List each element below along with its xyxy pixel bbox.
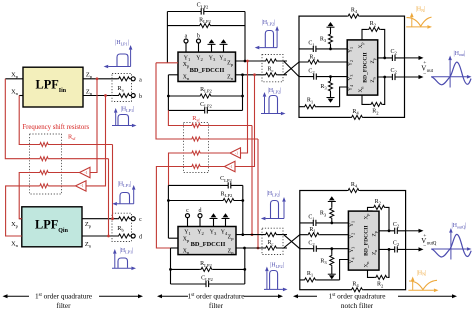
resistor R_1b N2 (304, 277, 317, 283)
label b (139, 94, 142, 100)
svg-text:R3: R3 (320, 211, 327, 218)
wire R_1b line to Y4 N1 (299, 87, 347, 107)
svg-text:RLP2: RLP2 (200, 261, 212, 268)
svg-text:Rc: Rc (267, 240, 273, 247)
LPF block U_Qin (22, 207, 82, 247)
svg-text:R3: R3 (320, 258, 327, 265)
wire X_n input stub LPF_Iin (19, 95, 23, 97)
op-amp block U1 BD_FDCCII (178, 52, 236, 81)
svg-text:Frequency shift resistors: Frequency shift resistors (22, 124, 89, 131)
junction Zp(U2) tap (251, 233, 254, 236)
label R_a (117, 85, 123, 93)
pin label X_n of LPF_Iin (11, 89, 19, 97)
resistor R_4 top N1 (347, 13, 360, 19)
svg-text:C2: C2 (391, 68, 398, 75)
wire right rail top feedback U1 (244, 12, 246, 62)
svg-text:Y2: Y2 (196, 55, 203, 62)
svg-text:R1: R1 (307, 98, 314, 105)
label C_LP2 (top U1) (197, 3, 209, 10)
svg-text:Zp: Zp (228, 235, 235, 242)
wire C_1 line N2 (300, 222, 349, 224)
svg-text:R4: R4 (352, 281, 359, 288)
pin label Z_n U2 (228, 249, 235, 256)
wire X_p input stub LPF_Qin (19, 218, 22, 220)
svg-text:C1: C1 (308, 41, 315, 48)
LPF block U_Iin (23, 67, 83, 107)
svg-text:-1: -1 (230, 165, 233, 169)
label R_3 lower N2 (320, 258, 327, 265)
wire R_2 bottom loop N2 (368, 249, 390, 277)
resistor R_sf6 (191, 136, 201, 142)
resistor R_2 bottom N1 (370, 101, 383, 107)
label b above U1 (197, 33, 200, 39)
svg-text:notch filter: notch filter (341, 301, 374, 310)
svg-text:-1: -1 (81, 184, 84, 188)
label R_1a N1 (309, 54, 316, 61)
svg-text:Y1: Y1 (349, 221, 355, 227)
inverting amp A2 (left) (76, 181, 87, 191)
label R_3 upper N1 (320, 37, 327, 44)
op-amp block U2 BD_FDCCII (178, 227, 236, 255)
resistor R_4 top N2 (347, 187, 360, 193)
label out N1 (421, 65, 433, 75)
svg-text:Y1: Y1 (348, 47, 354, 53)
label R_1b N2 (307, 271, 314, 278)
terminal a above U1 (184, 39, 188, 52)
wire X_p stub U1 (red) (156, 62, 178, 64)
pin label Z_p U1 (227, 60, 234, 67)
svg-text:R2: R2 (375, 199, 382, 206)
wire Z_n U1 to R_c (236, 74, 288, 76)
svg-text:b: b (139, 94, 142, 100)
junction top rail on Z_p U1 (244, 60, 247, 63)
terminal a (circle) (131, 77, 135, 81)
svg-text:R3: R3 (320, 84, 327, 91)
svg-text:Y3: Y3 (209, 55, 216, 62)
label R_LP2 (top U2) (221, 191, 233, 198)
capacitor C_2in N2 (314, 245, 317, 252)
label R_3 lower N1 (320, 84, 327, 91)
svg-text:BD_FDCCII: BD_FDCCII (364, 225, 370, 255)
arrow output - N2 (406, 247, 424, 251)
junction R_2 top on Z_p N1 (383, 57, 386, 60)
svg-text:C2: C2 (308, 241, 315, 248)
plot |H_LP2| (bottom of U2) (264, 263, 288, 292)
wire R_1b line to Y4 N2 (300, 260, 349, 280)
wire C_1 line N1 (299, 48, 347, 50)
plot |H_LP1| (below R_b) (112, 248, 136, 270)
wire Z_p output N1 (378, 57, 405, 59)
svg-text:C2: C2 (393, 222, 400, 229)
pin label Y2 U2 (197, 230, 204, 237)
svg-text:RLP2: RLP2 (221, 191, 233, 198)
resistor R_c1 (265, 58, 278, 64)
svg-text:C2: C2 (308, 68, 315, 75)
dimension arrow 1st order quadrature filter (I) (3, 294, 144, 298)
label R_4 bottom N1 (352, 109, 359, 116)
ground upper N1 (up) (327, 22, 335, 27)
wire left rail top feedback U1 (166, 12, 168, 63)
label R_b (117, 225, 124, 233)
pin label Z_p U2 (228, 235, 235, 242)
wire row3 amp to Xp(Q) (red) (19, 173, 79, 219)
wire right rail top feedback U2 (242, 185, 244, 234)
capacitor C_2 out lower N1 (392, 73, 395, 80)
label R_c (top) (267, 66, 273, 73)
resistor R_sf5 (191, 123, 201, 129)
ground lower N2 (down) (328, 274, 336, 279)
svg-text:Xn: Xn (183, 74, 190, 81)
plot |H_LP1| (below R_a) (112, 107, 137, 128)
svg-text:R4: R4 (351, 8, 358, 15)
capacitor C_LP2 (bottom U2) (206, 280, 209, 287)
wire row4 amp to Xn(Q) (red) (6, 186, 76, 236)
pin label Y3 U1 (209, 55, 216, 62)
label 1st order quadrature filter (Q) line1 (187, 291, 244, 300)
wire R_1 line N1 (299, 61, 347, 63)
wire R_1 line N2 (300, 234, 349, 236)
resistor box R_c bottom (dashed) (262, 228, 283, 254)
label C_2 out lower N1 (391, 68, 398, 75)
plot |H_LP1| (above R_b) (112, 182, 135, 206)
junction bottom rail on Z_n U2 (243, 247, 246, 250)
wire Z_n output N2 (379, 248, 406, 250)
terminal b above U1 (197, 39, 201, 52)
svg-text:filter: filter (209, 301, 224, 310)
label R_1b N1 (307, 98, 314, 105)
pin label X_p U4 (364, 214, 370, 220)
plot |H_out| response (top, blue) (431, 51, 471, 88)
label R_2 bottom N2 (377, 282, 384, 289)
resistor R_2 top N1 (368, 26, 381, 32)
label c (139, 217, 142, 223)
plot |H_LP2| (top of U1) (255, 20, 279, 49)
plot |H_outQ| response (bottom, blue) (431, 223, 471, 259)
svg-text:c: c (186, 208, 189, 214)
svg-text:Rc: Rc (267, 66, 273, 73)
label C_1 N2 (308, 215, 315, 222)
resistor R_1a N2 (307, 232, 320, 238)
ground lower N1 (down) (327, 98, 335, 103)
junction Zn(I) tap (104, 94, 107, 97)
resistor R_3 upper N2 (329, 202, 335, 225)
label C_2in N2 (308, 241, 315, 248)
svg-text:Zp: Zp (370, 58, 376, 63)
resistor R_LP2 (top U1) (199, 23, 212, 29)
resistor R_sf8 (191, 163, 201, 169)
wire R_2 top loop N2 (368, 207, 390, 230)
label - N1 (423, 71, 426, 77)
svg-text:−: − (423, 244, 426, 250)
label R_4 top N2 (351, 182, 358, 189)
pin label X_n U1 (183, 74, 190, 81)
wire crossing X bottom (284, 235, 300, 249)
pin label Y1 U4 (349, 221, 355, 227)
op-amp block U4 BD_FDCCII (rotated) (348, 211, 379, 270)
resistor R_1b N1 (304, 104, 317, 110)
svg-text:Y2: Y2 (348, 60, 354, 66)
label outQ N2 (421, 237, 437, 247)
ground upper N2 (up) (328, 196, 336, 201)
label R_2 bottom N1 (372, 109, 379, 116)
resistor R_a2 on line b (118, 93, 131, 99)
label 1st order quadrature notch filter line1 (328, 291, 385, 300)
svg-text:C1: C1 (308, 215, 315, 222)
pin label X_n U2 (183, 248, 190, 255)
svg-text:R1: R1 (309, 227, 316, 234)
wire R_LP2 bottom feedback U2 (169, 268, 246, 271)
svg-text:Y1: Y1 (184, 230, 191, 237)
resistor box R_c top (dashed) (262, 55, 283, 82)
wire Z_p of LPF_Iin to terminal a (83, 78, 131, 80)
svg-text:Zn: Zn (228, 249, 235, 256)
wire R_LP2 bottom feedback U1 (167, 95, 244, 98)
plot |H_N| notch (top, orange) (406, 7, 432, 29)
label a (139, 77, 142, 83)
label C_1 N1 (308, 41, 315, 48)
svg-text:|HLP1|: |HLP1| (120, 248, 134, 254)
svg-text:BD_FDCCII: BD_FDCCII (191, 241, 226, 248)
svg-text:d: d (199, 208, 202, 214)
pin label X_p of LPF_Iin (11, 72, 19, 80)
label R_4 bottom N2 (352, 281, 359, 288)
arrow output - N1 (405, 75, 424, 79)
pin label Y4 U3 (348, 85, 354, 91)
wire R_LP2 top feedback U2 (168, 200, 242, 202)
svg-text:b: b (197, 33, 200, 39)
junction bottom rail on Z_n U1 (241, 73, 244, 76)
label a above U1 (185, 33, 188, 39)
pin label X_p of LPF_Qin (11, 221, 19, 229)
svg-text:R2: R2 (377, 282, 384, 289)
pin label Z_p of LPF_Qin (85, 221, 92, 229)
resistor R_3 lower N2 (329, 247, 335, 274)
wire Z_n output N1 (378, 76, 405, 78)
svg-text:Y4: Y4 (348, 85, 354, 91)
junction Zn(U1) tap (253, 73, 256, 76)
svg-text:Y4: Y4 (219, 55, 226, 62)
wire Z_n of LPF_Iin to terminal b (83, 95, 131, 97)
wire R_2 bottom loop N1 (362, 77, 385, 104)
capacitor C_LP2 (top U1) (201, 8, 204, 15)
wire Zn(I) to amp A2 (red) (86, 96, 106, 186)
capacitor C_1 N1 (313, 45, 316, 52)
pin label Y4 U1 (219, 55, 226, 62)
label C_LP2 (bottom U1) (200, 102, 212, 109)
resistor R_2 top N2 (373, 204, 386, 210)
wire outer loop R_4 N1 (299, 16, 405, 117)
arrow output + N1 (405, 56, 424, 60)
inverting amp A4 (middle) (225, 161, 236, 171)
svg-text:BD_FDCCII: BD_FDCCII (362, 52, 368, 82)
label C_LP2 (bottom U2) (201, 276, 213, 283)
svg-text:C2: C2 (393, 240, 400, 247)
label R_c (bottom) (267, 240, 273, 247)
svg-text:R4: R4 (351, 182, 358, 189)
wire crossing X top (284, 61, 299, 77)
svg-text:Xn: Xn (358, 87, 364, 93)
svg-text:CLP2: CLP2 (201, 276, 213, 283)
wire C_2 line N1 (299, 76, 347, 78)
wire X_n stub U1 (168, 74, 178, 76)
svg-text:Xn: Xn (364, 262, 370, 268)
dimension arrow 1st order quadrature notch filter (293, 294, 457, 298)
label 1st order quadrature filter (I) line1 (35, 291, 92, 300)
capacitor C_2 out lower N2 (395, 246, 398, 253)
svg-text:RLP2: RLP2 (200, 87, 212, 94)
svg-text:Y3: Y3 (348, 75, 354, 81)
svg-text:Y3: Y3 (210, 230, 217, 237)
plot |H_N| notch (bottom, orange) (408, 270, 438, 292)
wire row2 Zn(U2) to Xp(U1) (red) (156, 63, 258, 248)
label Frequency shift resistors (22, 124, 89, 131)
svg-text:c: c (139, 217, 142, 223)
resistor R_c4 (265, 245, 278, 251)
ground at Y4 U1 (220, 39, 228, 52)
junction right rail on Z_p U2 (241, 233, 244, 236)
pin label Z_p U4 (372, 231, 378, 236)
resistor R_a1 on line a (118, 76, 131, 82)
terminal d (circle) (131, 234, 135, 238)
svg-text:Xp: Xp (183, 237, 190, 244)
svg-text:Zn: Zn (372, 250, 378, 255)
svg-text:Zp: Zp (372, 231, 378, 236)
pin label Y4 U4 (349, 258, 355, 264)
dimension arrow 1st order quadrature filter (Q) (157, 294, 283, 298)
label c above U2 (186, 208, 189, 214)
wire left rail bottom feedback U1 (167, 75, 169, 111)
wire row3 amp to Xp(U2) (red) (169, 153, 231, 185)
svg-text:CLP2: CLP2 (220, 176, 232, 183)
svg-text:|HLP1|: |HLP1| (118, 182, 132, 188)
svg-text:BD_FDCCII: BD_FDCCII (190, 67, 225, 74)
svg-text:CLP2: CLP2 (197, 3, 209, 10)
svg-text:|HN|: |HN| (417, 270, 427, 276)
wire row4 amp to Xn(U2) (red) (156, 167, 224, 249)
resistor R_sf7 (191, 150, 201, 156)
resistor box R_b (dashed) (112, 213, 132, 241)
wire R_LP2 top feedback U1 (167, 25, 245, 27)
label R_LP2 (bottom U2) (200, 261, 212, 268)
inverting amp A3 (middle) (230, 148, 241, 158)
resistor R_3 lower N1 (327, 75, 333, 97)
wire left rail top feedback U2 (167, 185, 169, 238)
terminal c above U2 (186, 214, 190, 227)
pin label Z_n U1 (227, 75, 234, 82)
label R_2 top N1 (370, 21, 377, 28)
svg-text:|HLP2|: |HLP2| (270, 263, 284, 269)
resistor R_2 bottom N2 (375, 274, 388, 280)
junction Zp(Q) tap (111, 217, 114, 220)
wire row1 Zp(U2) to Xn(U1) (red) (168, 110, 252, 234)
wire C_LP2 bottom feedback U1 (168, 109, 242, 111)
svg-text:out: out (427, 69, 434, 74)
svg-text:1st order quadrature: 1st order quadrature (35, 291, 92, 300)
wire row2 Zn(Q) to Xp(I) (red) (5, 79, 108, 236)
svg-text:|HLP2|: |HLP2| (262, 20, 276, 26)
label C_LP2 (top U2) (220, 176, 232, 183)
wire crossing stubs bottom (0, 0, 1, 1)
junction R_2 bottom on Z_n N2 (388, 248, 391, 251)
inverting amp A1 (left) (80, 167, 91, 177)
resistor R_c2 (265, 72, 278, 78)
dashed box R_sf (middle) (184, 123, 209, 173)
svg-text:−: − (423, 71, 426, 77)
svg-text:Y4: Y4 (349, 258, 355, 264)
wire Z_p U2 to R_c (236, 234, 287, 236)
label R_LP2 (bottom U1) (200, 87, 212, 94)
pin label X_n U3 (358, 87, 364, 93)
label R_4 top N1 (351, 8, 358, 15)
svg-text:Xn: Xn (183, 248, 190, 255)
svg-text:outQ: outQ (427, 242, 437, 247)
label R_2 top N2 (375, 199, 382, 206)
wire Zp(U1) to amp A3 (red) (240, 61, 247, 153)
resistor R_b1 on line c (118, 216, 131, 222)
svg-text:R2: R2 (372, 109, 379, 116)
wire C_LP2 top feedback U2 (168, 184, 242, 186)
wire C_LP2 bottom feedback U2 (171, 283, 245, 285)
pin label Y1 U2 (184, 230, 191, 237)
wire left rail bottom feedback U2 (170, 248, 172, 284)
label d (139, 235, 142, 241)
svg-text:-1: -1 (85, 171, 88, 175)
resistor R_sf2 (39, 156, 49, 162)
resistor R_4 bottom N2 (351, 287, 364, 293)
svg-text:R1: R1 (307, 271, 314, 278)
label C_2 out upper N2 (393, 222, 400, 229)
label + N2 (423, 233, 426, 239)
pin label X_n U4 (364, 262, 370, 268)
label - N2 (423, 244, 426, 250)
wire Z_n U2 to R_c (236, 247, 287, 249)
svg-text:1st order quadrature: 1st order quadrature (187, 291, 244, 300)
svg-text:R3: R3 (320, 37, 327, 44)
pin label Y1 U1 (184, 55, 191, 62)
resistor R_sf4 (39, 183, 49, 189)
svg-text:Xp: Xp (358, 42, 364, 48)
pin label Z_n of LPF_Iin (86, 89, 93, 97)
pin label Y3 U4 (349, 247, 355, 253)
junction R_2 bottom on Z_n N1 (383, 76, 386, 79)
wire right rail bottom feedback U1 (242, 75, 244, 111)
pin label Z_p of LPF_Iin (86, 72, 93, 80)
label R_1a N2 (309, 227, 316, 234)
ground at Y4 U2 (222, 213, 230, 226)
ground at Y3 U2 (210, 213, 218, 226)
label d above U2 (199, 208, 202, 214)
svg-text:|HLP2|: |HLP2| (268, 88, 282, 94)
pin label Z_n of LPF_Qin (85, 241, 92, 249)
wire R_2 top loop N1 (362, 29, 385, 58)
junction Zp(U1) tap (246, 60, 249, 63)
pin label Z_p U3 (370, 58, 376, 63)
wire Z_p output N2 (379, 230, 406, 232)
capacitor C_LP2 (bottom U1) (205, 107, 208, 114)
capacitor C_2 out upper N2 (395, 227, 398, 234)
resistor R_b2 on line d (118, 233, 131, 239)
wire row1 Zp(Q) to Xn(I) (red) (19, 96, 112, 219)
op-amp block U3 BD_FDCCII (rotated) (347, 40, 378, 95)
svg-text:-1: -1 (235, 151, 238, 155)
pin label Y2 U4 (349, 233, 355, 239)
svg-text:|HoutQ|: |HoutQ| (452, 223, 467, 229)
wire right rail bottom feedback U2 (244, 248, 246, 284)
resistor R_sf3 (39, 169, 49, 175)
label 1st order quadrature filter (Q) line2 (209, 301, 224, 310)
pin label Z_n U3 (370, 77, 376, 82)
pin label X_p U2 (183, 237, 190, 244)
